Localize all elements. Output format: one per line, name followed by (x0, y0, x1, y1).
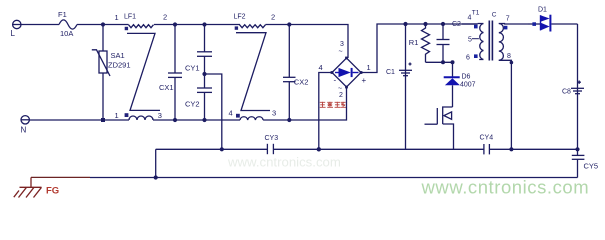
phase dot T1 pin7 (504, 26, 508, 30)
svg-text:T1: T1 (472, 10, 480, 17)
phase dot LF1 top (125, 27, 128, 30)
svg-text:ZD291: ZD291 (108, 61, 131, 70)
wire LF1 to CX1 CY1 LF2 (154, 24, 240, 26)
svg-text:D6: D6 (462, 74, 471, 81)
svg-text:SA1: SA1 (111, 51, 125, 60)
bus A ground segment 2 (273, 148, 484, 150)
choke LF2 top winding (240, 25, 266, 28)
node bridge minus bus (317, 147, 321, 151)
svg-text:D1: D1 (538, 6, 547, 13)
svg-text:~: ~ (339, 49, 343, 56)
diode D6 (444, 62, 460, 107)
node CX1 bottom (173, 118, 177, 122)
capacitor CX1 (168, 25, 182, 121)
wire L to fuse (21, 24, 59, 26)
svg-text:CY3: CY3 (265, 135, 279, 142)
capacitor CY4 (484, 144, 490, 154)
wire varistor to bottom rail (102, 73, 104, 120)
core LF1 Z (127, 33, 160, 110)
core LF2 Z (236, 33, 270, 111)
capacitor CY3 (267, 144, 273, 154)
svg-text:C8: C8 (562, 89, 571, 96)
pin 5 stub T1 (472, 38, 479, 40)
svg-text:L: L (11, 29, 16, 38)
svg-text:2: 2 (339, 92, 343, 99)
node FG junction (154, 175, 158, 179)
bridge rectifier BD1 (332, 58, 361, 87)
svg-text:LF1: LF1 (124, 13, 136, 20)
svg-text:www.cntronics.com: www.cntronics.com (227, 155, 341, 170)
wire FG left red (31, 176, 90, 178)
wire bridge minus to bus (319, 73, 332, 150)
svg-text:C: C (492, 11, 497, 18)
svg-text:CY4: CY4 (480, 134, 494, 141)
choke LF2 bottom winding (240, 117, 263, 120)
node C2 top (441, 22, 445, 26)
transformer T1 primary (462, 24, 483, 60)
bus A ground segment 1 (156, 148, 268, 150)
capacitor CX2 (283, 25, 296, 121)
svg-text:4: 4 (468, 15, 472, 22)
phase dot LF1 bottom (125, 113, 129, 117)
wire LF2 to bridge corner (266, 25, 349, 59)
svg-text:7: 7 (506, 15, 510, 22)
label rectifier red (320, 102, 346, 108)
svg-text:CY2: CY2 (185, 100, 200, 109)
phase dot T1 pin6 (474, 54, 478, 58)
svg-text:4007: 4007 (460, 81, 476, 88)
node CY1 top (202, 22, 206, 26)
svg-text:CX2: CX2 (294, 78, 309, 87)
node R1 top (423, 22, 427, 26)
svg-text:2: 2 (271, 13, 275, 22)
node L1 junction (101, 22, 105, 26)
node CY mid bus (220, 147, 224, 151)
node CY5 top (575, 147, 579, 151)
FG bus (156, 177, 578, 179)
capacitor C1 bulk (399, 24, 412, 149)
node CY2 bottom (202, 118, 206, 122)
bus A ground segment 3 (489, 148, 577, 150)
resistor R1 (422, 24, 430, 62)
node CY1 CY2 midpoint (202, 72, 206, 76)
svg-text:R1: R1 (409, 38, 419, 47)
phase dot T1 pin4 (474, 25, 478, 29)
svg-text:2: 2 (163, 13, 167, 22)
node CX2 bottom (287, 118, 291, 122)
capacitor CY2 (197, 88, 212, 120)
capacitor C2 (437, 24, 450, 62)
wire D1 output down (577, 24, 579, 149)
node pin8 corner (510, 61, 514, 65)
capacitor CY5 (572, 149, 585, 177)
capacitor CY1 (197, 25, 212, 89)
wire N rail left (29, 119, 129, 121)
node D6 top (451, 60, 455, 64)
wire fuse to node (77, 24, 129, 26)
ground FG symbol (14, 177, 42, 197)
svg-text:10A: 10A (60, 29, 73, 38)
svg-text:3: 3 (158, 111, 162, 120)
svg-text:1: 1 (367, 63, 371, 72)
bridge corner pads (331, 57, 363, 89)
wire N rail right to bridge (263, 87, 346, 120)
node pin8 bus (509, 147, 513, 151)
diode D1 (528, 15, 578, 32)
choke LF1 bottom winding (129, 116, 153, 120)
svg-text:4: 4 (229, 108, 233, 117)
svg-text:6: 6 (466, 55, 470, 62)
phase dot LF2 bottom (236, 114, 240, 118)
wire clamp node (426, 61, 453, 63)
svg-text:3: 3 (340, 41, 344, 48)
mosfet Q1 (425, 107, 454, 149)
wire node down to varistor (102, 25, 104, 52)
svg-text:www.cntronics.com: www.cntronics.com (421, 177, 590, 198)
svg-text:C2: C2 (452, 21, 461, 28)
node C2 bottom (441, 60, 445, 64)
varistor SA1 (92, 50, 110, 76)
svg-text:C1: C1 (386, 69, 395, 76)
choke LF1 top winding (129, 25, 154, 28)
svg-text:1: 1 (115, 111, 119, 120)
wire bus A elbow to FG bus (155, 149, 157, 177)
svg-text:-: - (334, 76, 337, 85)
svg-text:LF2: LF2 (234, 13, 246, 20)
bridge inner diode (335, 68, 359, 77)
node C1 top (403, 22, 407, 26)
svg-text:8: 8 (507, 53, 511, 60)
bottom rail N (21, 116, 29, 124)
svg-text:CY1: CY1 (185, 63, 200, 72)
fuse F1 (59, 20, 77, 29)
svg-text:+: + (362, 76, 367, 85)
svg-text:5: 5 (468, 36, 472, 43)
node varistor bottom (101, 118, 105, 122)
terminal L (13, 20, 21, 28)
svg-text:1: 1 (115, 13, 119, 22)
svg-text:F1: F1 (58, 10, 67, 19)
svg-text:3: 3 (272, 108, 276, 117)
node CX2 top (287, 22, 291, 26)
capacitor C8 output (571, 81, 584, 94)
svg-text:4: 4 (319, 63, 323, 72)
wire FG left navy (90, 177, 156, 179)
svg-text:FG: FG (46, 185, 59, 196)
transformer core (489, 21, 492, 61)
svg-text:CX1: CX1 (159, 83, 174, 92)
svg-text:CY5: CY5 (584, 162, 599, 171)
wire bridge plus up to rail (361, 24, 478, 73)
node CX1 top (173, 22, 177, 26)
transformer T1 secondary (499, 24, 528, 150)
svg-text:N: N (21, 125, 27, 134)
phase dot LF2 top (235, 26, 238, 29)
wire CY midpoint to bus (205, 74, 222, 149)
wire N rail mid (153, 119, 240, 121)
